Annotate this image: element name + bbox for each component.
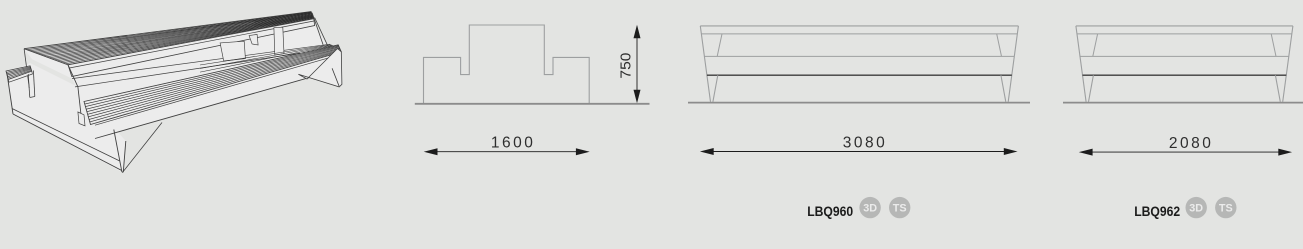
LBQ962 seat line xyxy=(1080,55,1289,57)
badge TS xyxy=(889,197,910,218)
support post A xyxy=(220,41,245,61)
LBQ960 top slab xyxy=(700,26,1018,34)
LBQ962 recess slants xyxy=(1093,34,1276,57)
svg-text:750: 750 xyxy=(619,53,635,79)
badge 3D xyxy=(859,197,880,218)
right end panel leg xyxy=(298,49,342,87)
svg-text:3D: 3D xyxy=(863,203,877,215)
front lower tier slat surface xyxy=(84,45,341,125)
left end panel outer face xyxy=(7,74,122,171)
left end panel front leg xyxy=(114,130,126,173)
LBQ962 top slab xyxy=(1076,26,1293,34)
top tier left end edges xyxy=(24,49,84,126)
svg-text:TS: TS xyxy=(893,203,907,215)
badge TS xyxy=(1215,197,1236,218)
svg-text:LBQ960: LBQ960 xyxy=(807,203,853,219)
LBQ962 outer edges xyxy=(1076,26,1293,102)
dimension 1600 xyxy=(424,135,590,156)
top tier front fascia xyxy=(68,19,315,77)
dimension 3080 xyxy=(700,134,1018,155)
front profile ground line xyxy=(415,103,650,105)
bench body fill xyxy=(24,12,342,139)
front profile outline xyxy=(424,25,590,103)
left panel fill xyxy=(7,63,126,172)
support post B xyxy=(249,34,258,45)
svg-text:TS: TS xyxy=(1219,203,1233,215)
LBQ960 body bottom line xyxy=(707,74,1012,76)
dimension 750 xyxy=(619,25,641,104)
back lower tier sliver slats xyxy=(200,45,333,73)
LBQ960 recess slants xyxy=(717,34,1001,57)
body bottom inner edge xyxy=(123,123,162,173)
back lower tier fascia xyxy=(8,71,32,82)
LBQ962 ground line xyxy=(1063,102,1303,104)
LBQ960 outer edges xyxy=(700,26,1018,102)
front lower tier fascia xyxy=(95,54,341,138)
LBQ960 seat line xyxy=(704,55,1014,57)
top tier slat surface xyxy=(24,12,314,65)
badge 3D xyxy=(1186,197,1207,218)
LBQ960 ground line xyxy=(688,102,1030,104)
support post C xyxy=(274,27,284,55)
LBQ960 legs xyxy=(713,75,1006,102)
LBQ962 body bottom line xyxy=(1083,74,1287,76)
LBQ962 legs xyxy=(1089,75,1281,102)
svg-text:3D: 3D xyxy=(1189,203,1203,215)
left end panel front slot xyxy=(78,112,85,126)
left end panel back slot xyxy=(28,71,35,98)
gap rail lines xyxy=(72,44,330,87)
back lower tier left end slats xyxy=(6,66,32,80)
dimension 2080 xyxy=(1079,135,1292,156)
svg-text:LBQ962: LBQ962 xyxy=(1134,203,1180,219)
right end slot lines xyxy=(312,13,328,46)
